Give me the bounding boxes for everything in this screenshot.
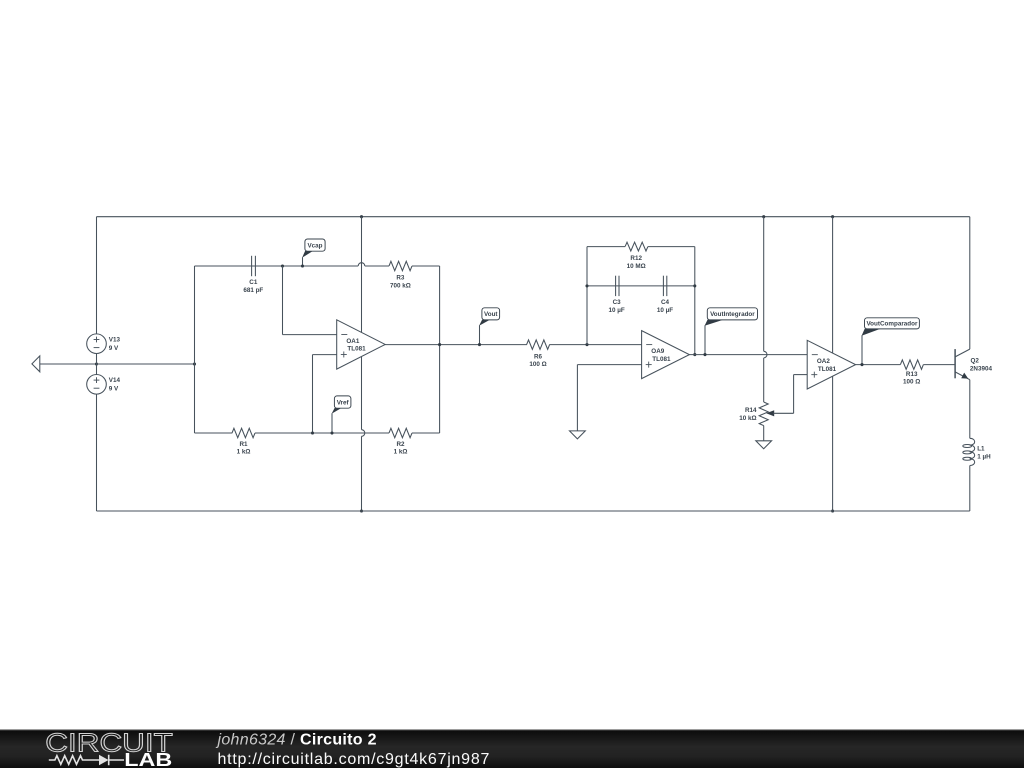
wire wiper to OA2 non-inverting — [794, 375, 808, 414]
node junction dot cap row right — [693, 284, 696, 287]
resistor R2 1 k&#937; — [389, 428, 412, 455]
svg-text:10 µF: 10 µF — [608, 307, 624, 314]
wire R14 branch lower — [763, 358, 765, 402]
resistor R3 700 k&#937; — [389, 261, 412, 289]
wire OA2 output — [856, 364, 901, 366]
svg-text:100 Ω: 100 Ω — [903, 379, 920, 386]
svg-text:10 kΩ: 10 kΩ — [739, 415, 756, 422]
wire feedback top left segment — [587, 246, 625, 248]
node junction dot Vcap stem — [301, 264, 304, 267]
svg-text:http://circuitlab.com/c9gt4k67: http://circuitlab.com/c9gt4k67jn987 — [218, 751, 491, 768]
svg-text:TL081: TL081 — [652, 356, 671, 363]
wire R3 to right vertical — [412, 265, 440, 267]
ground (OA9 non-inverting) — [570, 431, 586, 439]
wire R2 to right vertical — [412, 432, 440, 434]
wire R14 branch upper — [763, 217, 765, 352]
svg-text:john6324 / Circuito 2: john6324 / Circuito 2 — [216, 732, 377, 749]
svg-text:VoutIntegrador: VoutIntegrador — [710, 311, 755, 318]
wire feedback left vertical — [586, 247, 588, 345]
net flag VoutIntegrador — [705, 308, 758, 355]
wire Q2 emitter to L1 — [969, 380, 971, 439]
svg-text:10 µF: 10 µF — [657, 307, 673, 314]
wire junction to V14 — [96, 364, 98, 375]
op-amp OA1 TL081 — [337, 320, 386, 369]
net flag Vcap — [302, 239, 325, 266]
wire R6 to OA9 inverting input — [549, 344, 641, 346]
svg-text:R2: R2 — [396, 441, 405, 448]
svg-text:Vout: Vout — [484, 311, 498, 318]
node junction dot feedback column — [438, 343, 441, 346]
wire R14 to ground — [763, 426, 765, 441]
wire OA2 V+ power — [832, 217, 834, 353]
svg-text:R12: R12 — [630, 255, 642, 262]
svg-text:L1: L1 — [977, 446, 985, 453]
wire right vertical R3-R2 — [439, 266, 441, 433]
net flag VoutComparador — [862, 318, 920, 365]
wire hop R14 over integrator output — [764, 351, 767, 358]
svg-text:Vcap: Vcap — [307, 242, 322, 249]
node junction dot top rail / OA2 power — [831, 215, 834, 218]
wire R1 to Vref junction — [255, 432, 389, 434]
ground (R14) — [756, 441, 772, 449]
capacitor C3 10 &#181;F — [608, 276, 624, 314]
svg-text:TL081: TL081 — [818, 366, 837, 373]
svg-text:10 MΩ: 10 MΩ — [627, 263, 646, 270]
node junction dot to OA1 inverting input — [281, 264, 284, 267]
wire OA1 V- power upper — [361, 357, 363, 430]
svg-text:OA9: OA9 — [651, 348, 664, 355]
wire hop over OA1 power line — [358, 263, 365, 266]
inductor L1 1 &#181;H — [963, 438, 991, 465]
transistor Q2 2N3904 — [955, 349, 992, 380]
resistor R1 1 k&#937; — [232, 428, 255, 455]
wire L1 to bottom rail — [969, 466, 971, 512]
wire OA1 output — [385, 344, 527, 346]
resistor R13 100 &#937; — [900, 360, 923, 386]
node junction dot integrator input — [585, 343, 588, 346]
svg-text:LAB: LAB — [124, 749, 172, 768]
resistor R12 10 M&#937; — [625, 242, 648, 270]
node junction dot top rail / OA1 power — [360, 215, 363, 218]
wire inner-left vertical — [194, 266, 196, 433]
capacitor C4 10 &#181;F — [657, 276, 673, 314]
node junction dot cap row left — [585, 284, 588, 287]
wire capacitor row — [587, 285, 695, 287]
node junction dot sources/ground — [95, 362, 98, 365]
node junction dot Vref stem — [330, 431, 333, 434]
wire Q2 collector to top rail — [969, 217, 971, 349]
ground (left, rotated) — [32, 356, 40, 372]
wire top supply rail — [97, 216, 970, 218]
node junction dot inner-left — [193, 362, 196, 365]
svg-text:9 V: 9 V — [109, 385, 119, 392]
node junction dot Vout stem — [478, 343, 481, 346]
wire feedback right vertical — [694, 247, 696, 355]
node junction dot OA1 power bottom rail — [360, 509, 363, 512]
wire OA1 inverting input branch — [283, 266, 337, 335]
svg-text:VoutComparador: VoutComparador — [866, 321, 918, 328]
svg-text:2N3904: 2N3904 — [970, 366, 993, 373]
svg-text:C3: C3 — [613, 299, 622, 306]
wire C1 row right segment — [365, 265, 389, 267]
svg-text:9 V: 9 V — [109, 345, 119, 352]
wire integrator output continues to OA2 inverting — [758, 354, 807, 356]
voltage source V13 9 V — [87, 334, 121, 354]
node junction dot top rail / R14 branch — [762, 215, 765, 218]
net flag Vout — [479, 308, 500, 345]
wire OA1 V+ power — [361, 217, 363, 333]
svg-text:700 kΩ: 700 kΩ — [390, 283, 411, 290]
resistor R6 100 &#937; — [527, 340, 550, 368]
svg-text:OA2: OA2 — [817, 358, 830, 365]
net flag Vref — [332, 396, 351, 433]
svg-text:681 pF: 681 pF — [243, 287, 263, 294]
svg-text:C1: C1 — [249, 279, 258, 286]
node junction dot feedback to output — [693, 353, 696, 356]
capacitor C1 681 pF — [243, 256, 263, 294]
node junction dot VoutIntegrador stem — [703, 353, 706, 356]
svg-text:R3: R3 — [396, 275, 405, 282]
wire R13 to Q2 base — [923, 364, 955, 366]
wire C1 row left segment — [195, 265, 359, 267]
svg-text:C4: C4 — [661, 299, 670, 306]
wire V13 to junction — [96, 354, 98, 365]
potentiometer R14 10 k&#937; — [739, 402, 793, 426]
wire ground to sources junction — [40, 363, 97, 365]
voltage source V14 9 V — [87, 375, 121, 395]
wire OA1 non-inverting input branch — [313, 355, 337, 433]
svg-text:R14: R14 — [745, 407, 757, 414]
svg-text:R1: R1 — [239, 441, 248, 448]
wire OA9 non-inverting to ground — [577, 365, 641, 431]
wire sources junction to inner branch — [97, 363, 195, 365]
svg-text:R6: R6 — [534, 353, 543, 360]
wire OA1 V- power lower — [361, 436, 363, 511]
svg-text:V13: V13 — [109, 337, 121, 344]
svg-text:R13: R13 — [906, 371, 918, 378]
wire V14 down to bottom rail — [96, 394, 98, 511]
svg-text:1 kΩ: 1 kΩ — [237, 449, 251, 456]
wire feedback top right segment — [648, 246, 695, 248]
node junction dot OA2 power bottom rail — [831, 509, 834, 512]
wire hop OA1 power over R row — [362, 430, 365, 437]
node junction dot OA1 plus branch — [311, 431, 314, 434]
svg-text:TL081: TL081 — [347, 346, 366, 353]
svg-text:1 µH: 1 µH — [977, 453, 991, 460]
op-amp OA2 TL081 — [807, 340, 855, 389]
svg-text:V14: V14 — [109, 377, 121, 384]
svg-text:OA1: OA1 — [346, 338, 359, 345]
wire bottom rail — [97, 510, 970, 512]
wire top rail to V13 — [96, 217, 98, 334]
wire OA2 V- power — [832, 376, 834, 511]
op-amp OA9 TL081 — [642, 331, 690, 379]
svg-text:1 kΩ: 1 kΩ — [394, 449, 408, 456]
node junction dot VoutComparador stem — [860, 363, 863, 366]
wire R1 row left segment — [195, 432, 233, 434]
wire OA9 output — [689, 354, 758, 356]
svg-text:100 Ω: 100 Ω — [529, 361, 546, 368]
svg-text:Vref: Vref — [337, 399, 350, 406]
svg-text:Q2: Q2 — [971, 357, 980, 364]
